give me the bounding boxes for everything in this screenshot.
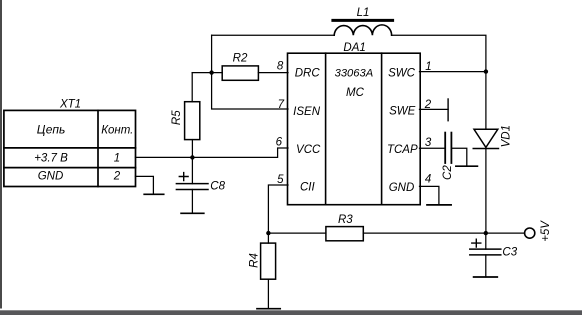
ground C8 — [181, 212, 204, 214]
wire node A down to ISEN pin 7 — [212, 73, 288, 109]
svg-text:Цепь: Цепь — [37, 123, 66, 137]
resistor R4 — [261, 233, 276, 279]
wire node A up to L1 rail — [211, 35, 213, 72]
svg-text:+5V: +5V — [540, 220, 552, 242]
resistor R2 — [222, 66, 258, 80]
svg-text:6: 6 — [276, 137, 283, 149]
wire R4 to ground — [267, 279, 269, 309]
wire SWC pin 1 — [420, 71, 486, 73]
diode VD1 — [473, 129, 498, 148]
svg-text:5: 5 — [277, 174, 284, 186]
svg-text:DRC: DRC — [295, 68, 321, 80]
svg-text:8: 8 — [277, 61, 284, 73]
svg-text:VCC: VCC — [296, 144, 321, 156]
svg-text:2: 2 — [113, 171, 121, 183]
junction +3.7V rail / R5 / C8 — [190, 155, 194, 159]
wire C2 to ground — [451, 148, 466, 166]
svg-text:R4: R4 — [249, 253, 261, 268]
svg-text:C3: C3 — [502, 246, 517, 258]
wire +3.7V rail from XT1 pin1 to VCC pin 6 — [136, 148, 289, 157]
wire node A rail to L1 — [212, 34, 335, 36]
inductor L1 — [333, 20, 393, 35]
connector XT1 — [4, 110, 136, 186]
ground C3 — [474, 276, 498, 278]
svg-text:3: 3 — [425, 137, 432, 149]
svg-text:VD1: VD1 — [501, 125, 513, 147]
svg-text:7: 7 — [278, 99, 285, 111]
capacitor C8 — [176, 157, 208, 213]
svg-text:L1: L1 — [357, 7, 370, 19]
wire VD1 cathode to output node — [485, 149, 487, 234]
svg-text:MC: MC — [346, 87, 365, 99]
svg-text:SWC: SWC — [388, 68, 416, 80]
wire R2 to DRC pin 8 — [258, 72, 288, 74]
wire XT1 pin2 to ground — [136, 176, 154, 194]
junction CII/R3/R4 — [266, 231, 270, 235]
svg-text:R2: R2 — [233, 53, 248, 65]
junction node A (R2/R5/L1/ISEN) — [209, 70, 213, 74]
wire SWE pin 2 — [420, 108, 449, 110]
svg-text:XT1: XT1 — [59, 99, 81, 111]
resistor R3 — [326, 227, 363, 241]
svg-text:C8: C8 — [210, 181, 225, 193]
capacitor C3 — [470, 233, 501, 277]
svg-text:ISEN: ISEN — [293, 106, 321, 118]
junction output node — [484, 231, 488, 235]
svg-text:4: 4 — [425, 174, 431, 186]
wire output node to +5V terminal — [486, 232, 524, 234]
svg-text:Конт.: Конт. — [101, 125, 133, 137]
svg-text:GND: GND — [389, 182, 415, 194]
terminal stub pin 2 — [447, 99, 449, 121]
svg-text:C2: C2 — [442, 165, 454, 180]
terminal +5V — [525, 228, 535, 238]
ground XT1 pin2 — [144, 193, 164, 195]
wire SWC node to VD1 anode — [485, 72, 487, 130]
svg-text:1: 1 — [425, 61, 431, 73]
ground R4 — [257, 308, 280, 310]
svg-text:R3: R3 — [338, 214, 353, 226]
svg-text:1: 1 — [114, 152, 120, 164]
wire node A horizontal (R5 top to R2 left) — [192, 72, 222, 74]
wire node to R3 — [268, 232, 326, 234]
wire GND pin 4 to ground — [420, 186, 439, 205]
svg-text:SWE: SWE — [389, 106, 416, 118]
capacitor C2 — [445, 133, 451, 163]
IC DA1 MC33063A — [288, 53, 421, 205]
wire L1 to SWC node — [392, 35, 486, 71]
svg-text:TCAP: TCAP — [387, 144, 418, 156]
svg-text:GND: GND — [38, 171, 64, 183]
svg-text:R5: R5 — [171, 110, 183, 125]
svg-text:+3.7 В: +3.7 В — [34, 152, 68, 164]
svg-text:CII: CII — [300, 182, 316, 194]
ground pin 4 — [427, 204, 451, 206]
svg-text:33063A: 33063A — [335, 68, 374, 80]
wire R3 to output node — [363, 232, 486, 234]
resistor R5 — [185, 73, 200, 158]
junction SWC node — [484, 69, 488, 73]
svg-text:DA1: DA1 — [343, 42, 365, 54]
wire TCAP pin 3 to C2 — [420, 147, 446, 149]
wire CII pin 5 down to R3/R4 node — [268, 185, 288, 233]
ground C2 — [456, 165, 478, 167]
